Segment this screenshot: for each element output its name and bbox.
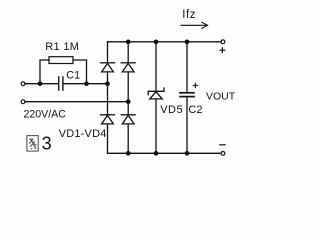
- junction: C2 bottom: [185, 151, 190, 156]
- junction: R1 left / C1: [38, 81, 43, 86]
- label VOUT: [206, 91, 236, 103]
- zener diode VD5: [148, 42, 164, 154]
- terminal: output −: [221, 152, 225, 156]
- figure label 图3: [27, 134, 52, 154]
- terminal: output +: [221, 40, 225, 44]
- svg-text:220V/AC: 220V/AC: [24, 109, 67, 121]
- diode VD3: [101, 115, 115, 124]
- diode VD2: [121, 63, 135, 72]
- wire: C1 to bridge left midpoint: [64, 83, 108, 85]
- svg-text:VOUT: VOUT: [206, 91, 236, 103]
- junction: bridge top / rail: [126, 39, 131, 44]
- resistor R1: [40, 57, 87, 84]
- wire: bridge left branch: [107, 42, 109, 154]
- label 220V/AC: [24, 109, 67, 121]
- junction: bridge bottom / rail: [126, 151, 131, 156]
- label C2: [188, 104, 202, 116]
- junction: bridge left midpoint: [105, 81, 110, 86]
- svg-text:VD1-VD4: VD1-VD4: [59, 128, 107, 140]
- capacitor C2: [180, 42, 194, 154]
- label: output + sign: [220, 48, 225, 53]
- wire: top positive rail: [108, 41, 221, 43]
- svg-text:Ifz: Ifz: [182, 9, 196, 21]
- svg-text:C1: C1: [66, 70, 80, 82]
- svg-text:C2: C2: [188, 104, 202, 116]
- diode VD4: [121, 115, 135, 124]
- label R1 1M: [45, 41, 79, 53]
- junction: R1 right / C1: [84, 81, 89, 86]
- svg-text:3: 3: [42, 134, 52, 154]
- label C1: [66, 70, 80, 82]
- wire: bottom negative rail: [108, 152, 221, 154]
- label: C2 polarity +: [193, 83, 197, 87]
- junction: VD5 top: [154, 39, 159, 44]
- terminal: AC input upper: [21, 82, 25, 86]
- svg-text:R1 1M: R1 1M: [45, 41, 79, 53]
- label Ifz: [182, 9, 196, 21]
- terminal: AC input lower: [21, 100, 25, 104]
- label VD1-VD4: [59, 128, 107, 140]
- label VD5: [160, 104, 183, 116]
- svg-text:VD5: VD5: [160, 104, 183, 116]
- diode VD1: [101, 63, 115, 72]
- arrow: Ifz current direction: [181, 22, 208, 28]
- wire: lower AC input to bridge right midpoint: [25, 101, 128, 103]
- capacitor C1: [59, 77, 63, 90]
- junction: bridge right midpoint: [126, 99, 131, 104]
- wire: upper AC input to C1: [25, 83, 58, 85]
- junction: VD5 bottom: [154, 151, 159, 156]
- label: output − sign: [220, 144, 225, 146]
- wire: bridge right branch: [127, 42, 129, 154]
- junction: C2 top: [185, 39, 190, 44]
